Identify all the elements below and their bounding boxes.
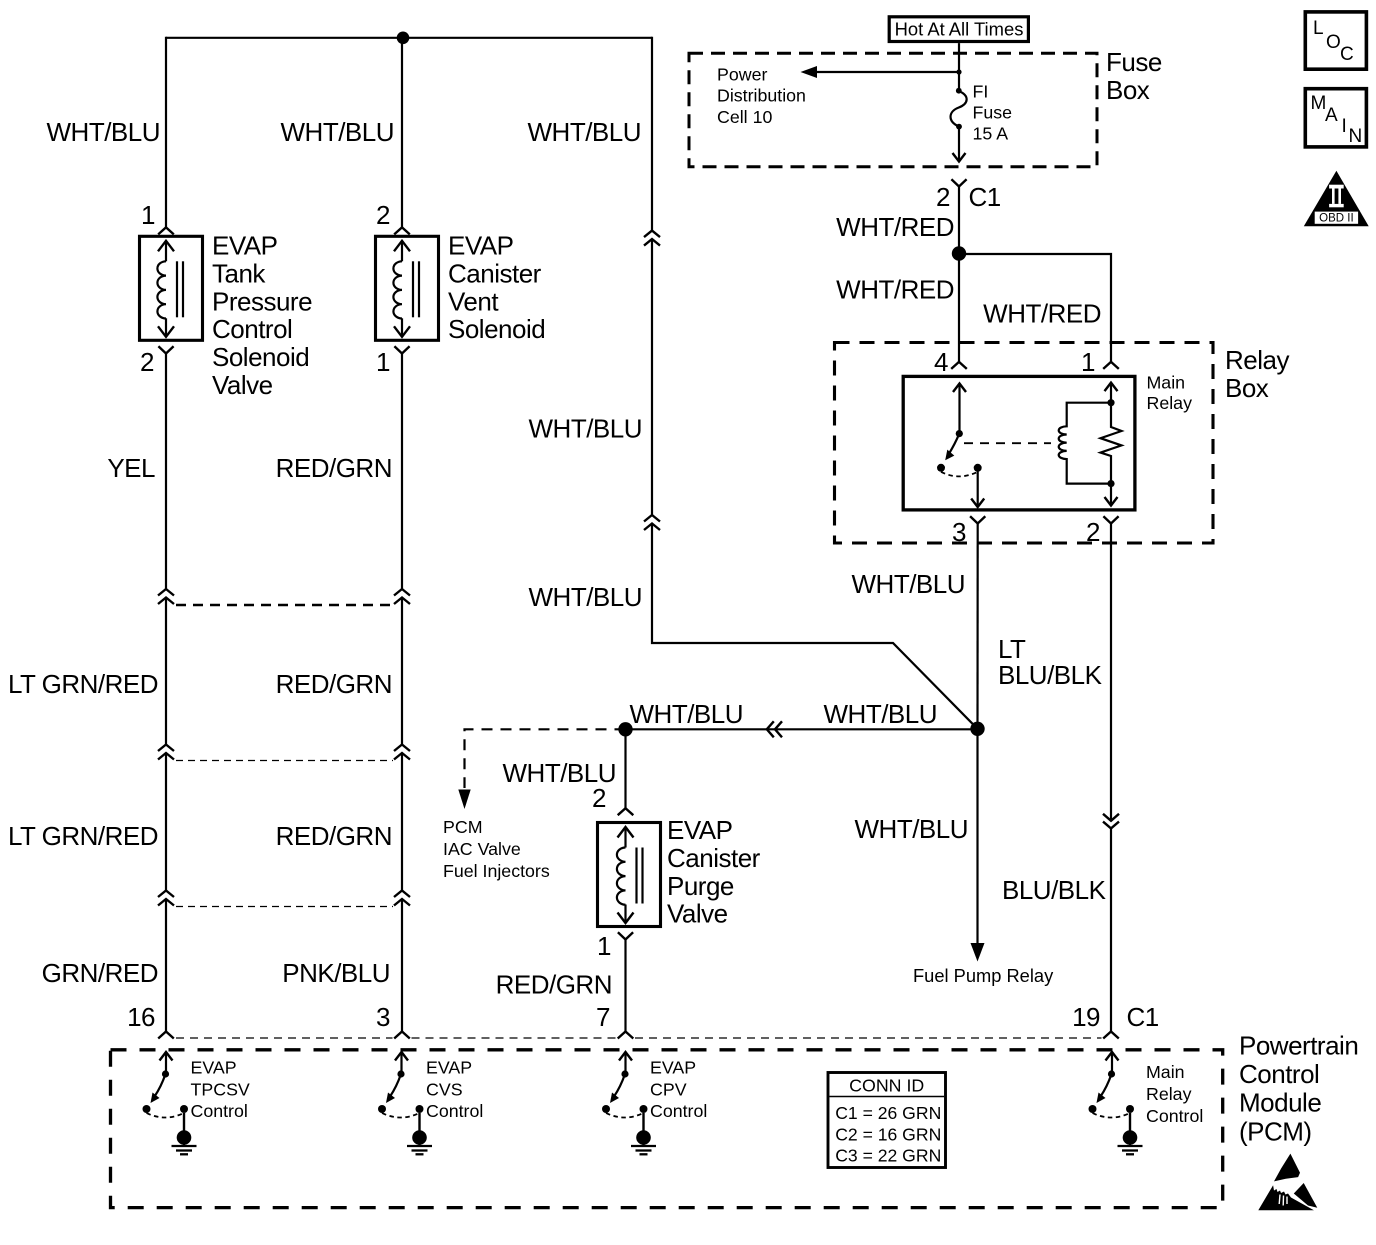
svg-text:Cell 10: Cell 10 [717, 107, 772, 127]
connector: relay pin 2 exit [1103, 516, 1118, 523]
svg-text:WHT/BLU: WHT/BLU [281, 117, 395, 147]
svg-text:2: 2 [592, 783, 606, 813]
svg-text:Purge: Purge [667, 871, 734, 901]
svg-text:WHT/RED: WHT/RED [983, 299, 1101, 329]
wire: LT GRN/RED segment 2 (wire1) [165, 753, 167, 891]
svg-text:CVS: CVS [426, 1079, 463, 1099]
dashed connector line (second) [176, 760, 393, 762]
main relay: contact dot right [974, 464, 982, 472]
svg-text:PNK/BLU: PNK/BLU [282, 958, 390, 988]
svg-text:Vent: Vent [448, 286, 499, 316]
svg-text:N: N [1349, 126, 1363, 147]
svg-text:LT GRN/RED: LT GRN/RED [8, 669, 158, 699]
connector: PCM pin 16 [158, 1032, 174, 1039]
wire: LT BLU/BLK relay pin2 down [1110, 524, 1112, 820]
svg-text:3: 3 [952, 517, 966, 547]
wire: WHT/BLU drop to CVS pin 2 [401, 38, 403, 228]
driver: EVAP CPV Control [619, 1052, 632, 1061]
svg-text:WHT/BLU: WHT/BLU [47, 117, 161, 147]
driver: Main Relay Control [1106, 1052, 1119, 1061]
wire: YEL segment (TPCSV pin2 down) [165, 354, 167, 590]
svg-text:1: 1 [376, 347, 390, 377]
svg-text:4: 4 [934, 347, 948, 377]
main relay: pin4 arrow up [953, 384, 966, 393]
svg-text:WHT/BLU: WHT/BLU [852, 569, 966, 599]
svg-text:GRN/RED: GRN/RED [42, 958, 158, 988]
icon: OBD II banner [1314, 211, 1359, 225]
svg-text:EVAP: EVAP [650, 1058, 696, 1078]
svg-text:C1: C1 [969, 182, 1001, 212]
wire: RED/GRN segment 1 (wire2) [401, 354, 403, 590]
svg-text:C: C [1340, 44, 1354, 65]
connector: wire into CVS pin 2 [394, 227, 410, 234]
icon: LOC box [1305, 12, 1366, 69]
svg-text:Solenoid: Solenoid [212, 342, 309, 372]
connector: relay pin 3 exit [970, 516, 985, 523]
fuse FI 15A: element [951, 91, 967, 127]
svg-text:Main: Main [1146, 1062, 1185, 1082]
arrowhead: power distribution [801, 66, 818, 78]
svg-text:Hot At All Times: Hot At All Times [895, 18, 1024, 39]
dashed branch: to PCM IAC Valve Fuel Injectors [465, 729, 626, 788]
svg-text:Power: Power [717, 65, 767, 85]
connector: in-line (wire3 lower) [644, 515, 660, 522]
main relay: wire to pin 3 with arrowhead [977, 468, 979, 507]
node: top bus junction [397, 32, 410, 45]
connector: in-line C2 (wire1) [158, 589, 174, 596]
svg-text:RED/GRN: RED/GRN [276, 821, 392, 851]
connector: in-line (right wire) [1103, 814, 1119, 821]
svg-text:Relay: Relay [1146, 1084, 1192, 1104]
wire: WHT/BLU wire3 middle [651, 239, 653, 515]
wire: RED/GRN purge to PCM pin 7 [624, 940, 626, 1032]
svg-text:Control: Control [426, 1101, 483, 1121]
svg-text:TPCSV: TPCSV [191, 1079, 250, 1099]
svg-text:RED/GRN: RED/GRN [496, 970, 612, 1000]
svg-text:2: 2 [140, 347, 154, 377]
connector: PCM pin 3 [394, 1032, 410, 1039]
wire: WHT/BLU relay pin3 to junction [976, 524, 978, 729]
connector: in-line (wire1, third) [158, 891, 174, 898]
wire: BLU/BLK to PCM pin 19 [1110, 828, 1112, 1031]
svg-text:C3 = 22 GRN: C3 = 22 GRN [835, 1146, 941, 1166]
wire: top WHT/BLU bus [166, 37, 652, 39]
wire: GRN/RED segment (wire1) [165, 899, 167, 1032]
wire: PNK/BLU segment (wire2) [401, 899, 403, 1032]
svg-text:BLU/BLK: BLU/BLK [1002, 875, 1107, 905]
svg-text:EVAP: EVAP [191, 1058, 237, 1078]
driver: EVAP CVS Control [395, 1052, 408, 1061]
wire: WHT/BLU junction to purge pin 2 [624, 729, 626, 808]
svg-text:Control: Control [650, 1101, 707, 1121]
svg-text:L: L [1313, 18, 1324, 39]
power tag: Hot At All Times box [889, 17, 1028, 42]
connector: CPV pin 1 exit [618, 932, 633, 939]
connector: wire into relay pin 1 [1103, 362, 1119, 369]
driver: EVAP TPCSV Control [160, 1052, 173, 1061]
svg-text:OBD II: OBD II [1319, 213, 1354, 225]
icon: OBD II roman numeral [1329, 185, 1344, 189]
svg-text:Distribution: Distribution [717, 86, 806, 106]
node: power distribution tap [956, 69, 961, 74]
connector: in-line (wire2, second) [394, 745, 410, 752]
svg-text:EVAP: EVAP [448, 231, 513, 261]
wire: WHT/BLU wire3 upper [651, 37, 653, 231]
svg-text:Control: Control [191, 1101, 248, 1121]
svg-text:Canister: Canister [667, 843, 761, 873]
main relay: coil top node [1107, 399, 1114, 406]
main relay: switch arm arrowhead [945, 450, 954, 461]
main relay: dashed contact link [941, 472, 978, 477]
svg-text:2: 2 [376, 200, 390, 230]
svg-text:1: 1 [1081, 347, 1095, 377]
svg-text:Box: Box [1225, 373, 1269, 403]
svg-text:C1 = 26 GRN: C1 = 26 GRN [835, 1103, 941, 1123]
main relay: switch pivot dot [956, 430, 963, 437]
svg-text:WHT/BLU: WHT/BLU [528, 117, 642, 147]
svg-text:RED/GRN: RED/GRN [276, 669, 392, 699]
svg-text:M: M [1311, 93, 1327, 114]
wire: from Hot tag down [958, 43, 960, 91]
pcm connector line C1 (thin dashed) [176, 1037, 393, 1039]
arrowhead: fuse output [953, 153, 966, 162]
solenoid L3: EVAP Canister Purge Valve [598, 823, 661, 927]
svg-text:Solenoid: Solenoid [448, 314, 545, 344]
connector: wire into CPV pin 2 [618, 808, 634, 815]
main relay: switch arm [949, 434, 960, 455]
fuse box: dashed outline [689, 53, 1097, 167]
svg-text:Control: Control [212, 314, 292, 344]
svg-text:Module: Module [1239, 1088, 1321, 1118]
svg-text:A: A [1325, 105, 1338, 126]
svg-text:WHT/BLU: WHT/BLU [855, 814, 969, 844]
svg-text:YEL: YEL [107, 453, 155, 483]
connector C1 pin 2: exit from fuse box [951, 179, 966, 186]
svg-text:Pressure: Pressure [212, 286, 312, 316]
svg-text:Control: Control [1239, 1059, 1319, 1089]
svg-text:2: 2 [1086, 517, 1100, 547]
svg-text:PCM: PCM [443, 817, 483, 837]
main relay: pin1 arrow up [1105, 383, 1118, 392]
main relay: solid box [903, 376, 1135, 510]
svg-text:WHT/RED: WHT/RED [836, 212, 954, 242]
connector: in-line (wire2, third) [394, 891, 410, 898]
svg-text:WHT/BLU: WHT/BLU [630, 699, 744, 729]
svg-text:Valve: Valve [212, 370, 273, 400]
svg-text:CPV: CPV [650, 1079, 687, 1099]
conn id table: box [828, 1073, 946, 1168]
dashed connector line (third) [176, 906, 393, 908]
svg-text:C1: C1 [1127, 1002, 1159, 1032]
main relay: coil [1059, 403, 1111, 484]
arrowhead: PCM IAC branch [458, 790, 470, 810]
icon: OBD II triangle [1304, 171, 1369, 227]
svg-text:15 A: 15 A [973, 124, 1009, 144]
svg-text:19: 19 [1072, 1002, 1100, 1032]
svg-text:Box: Box [1106, 75, 1150, 105]
svg-text:C2 = 16 GRN: C2 = 16 GRN [835, 1125, 941, 1145]
arrowhead: fuel pump relay [971, 943, 985, 962]
wire: RED/GRN segment 2 (wire2) [401, 598, 403, 745]
wire: WHT/BLU drop to EVAP TPCSV pin 1 [165, 37, 167, 228]
svg-text:Tank: Tank [212, 258, 266, 288]
svg-text:FI: FI [973, 82, 989, 102]
PCM box: dashed outline [111, 1050, 1223, 1208]
svg-text:EVAP: EVAP [426, 1058, 472, 1078]
node: purge valve junction [618, 722, 632, 736]
wire: power distribution arrow [816, 71, 959, 73]
wire: horizontal WHT/BLU to purge node [626, 728, 978, 730]
svg-text:Fuel Injectors: Fuel Injectors [443, 861, 550, 881]
icon: MAIN box [1305, 89, 1366, 147]
svg-text:O: O [1326, 32, 1341, 53]
svg-text:EVAP: EVAP [212, 231, 277, 261]
connector: wire into TPCSV pin 1 [158, 227, 174, 234]
connector: PCM pin 19 [1103, 1032, 1119, 1039]
svg-text:2: 2 [936, 182, 950, 212]
wire: RED/GRN segment 3 (wire2) [401, 753, 403, 891]
solenoid L2: EVAP Canister Vent Solenoid [376, 236, 439, 340]
connector: in-line (horizontal wire) [775, 721, 782, 737]
svg-text:Valve: Valve [667, 899, 728, 929]
wire: fuel pump relay drop [976, 729, 978, 944]
svg-text:I: I [1342, 116, 1347, 137]
svg-text:Powertrain: Powertrain [1239, 1031, 1358, 1061]
svg-text:WHT/BLU: WHT/BLU [529, 582, 643, 612]
relay box: dashed outline [835, 343, 1214, 544]
node: WHT/BLU junction (right) [970, 722, 984, 736]
svg-text:(PCM): (PCM) [1239, 1116, 1312, 1146]
svg-text:WHT/BLU: WHT/BLU [824, 699, 938, 729]
main relay: dashed actuation link [964, 442, 1051, 444]
svg-text:EVAP: EVAP [667, 815, 732, 845]
svg-text:Canister: Canister [448, 258, 542, 288]
svg-text:CONN ID: CONN ID [849, 1076, 924, 1096]
fuse FI 15A: bottom terminal [956, 124, 962, 130]
node: WHT/RED junction [952, 246, 966, 260]
main relay: coil bottom node [1107, 480, 1114, 487]
svg-text:LT GRN/RED: LT GRN/RED [8, 821, 158, 851]
svg-text:Relay: Relay [1225, 345, 1289, 375]
svg-text:IAC Valve: IAC Valve [443, 839, 521, 859]
connector: in-line (wire1, second) [158, 745, 174, 752]
connector: CVS pin 1 exit [394, 346, 409, 353]
svg-text:BLU/BLK: BLU/BLK [998, 660, 1103, 690]
wire: wire3 to corner and diagonal to junction [652, 524, 978, 729]
wire: fuse to connector [958, 127, 960, 161]
wire: LT GRN/RED segment 1 (wire1) [165, 598, 167, 745]
connector: in-line (wire3 upper) [644, 231, 660, 238]
svg-text:Main: Main [1147, 373, 1186, 393]
icon: ESD symbol (PCM) [1274, 1154, 1300, 1182]
wire: WHT/RED from fuse box [958, 187, 960, 362]
wire: WHT/RED branch to relay pin 1 [959, 254, 1111, 362]
connector: TPCSV pin 2 exit [158, 346, 173, 353]
svg-text:Fuse: Fuse [973, 103, 1013, 123]
svg-text:3: 3 [376, 1002, 390, 1032]
svg-text:7: 7 [596, 1002, 610, 1032]
connector: wire into relay pin 4 [951, 362, 967, 369]
main relay: resistor [1101, 403, 1122, 484]
svg-text:WHT/RED: WHT/RED [836, 275, 954, 305]
svg-text:Relay: Relay [1147, 393, 1193, 413]
dashed connector line C2 [176, 604, 393, 606]
main relay: wire to pin 2 with arrowhead [1110, 484, 1112, 505]
fuse FI 15A: top terminal [956, 88, 962, 94]
conn id table: header rule [830, 1096, 945, 1098]
svg-text:Fuse: Fuse [1106, 47, 1162, 77]
svg-text:WHT/BLU: WHT/BLU [529, 414, 643, 444]
main relay: contact dot left [937, 464, 945, 472]
connector: PCM pin 7 [618, 1032, 634, 1039]
svg-text:16: 16 [127, 1002, 155, 1032]
svg-text:Control: Control [1146, 1106, 1203, 1126]
solenoid L1: EVAP Tank Pressure Control Solenoid Valve [140, 236, 203, 340]
svg-text:1: 1 [141, 200, 155, 230]
svg-text:Fuel Pump Relay: Fuel Pump Relay [913, 965, 1054, 986]
connector: in-line C2 (wire2) [394, 589, 410, 596]
svg-text:1: 1 [597, 931, 611, 961]
svg-text:RED/GRN: RED/GRN [276, 453, 392, 483]
